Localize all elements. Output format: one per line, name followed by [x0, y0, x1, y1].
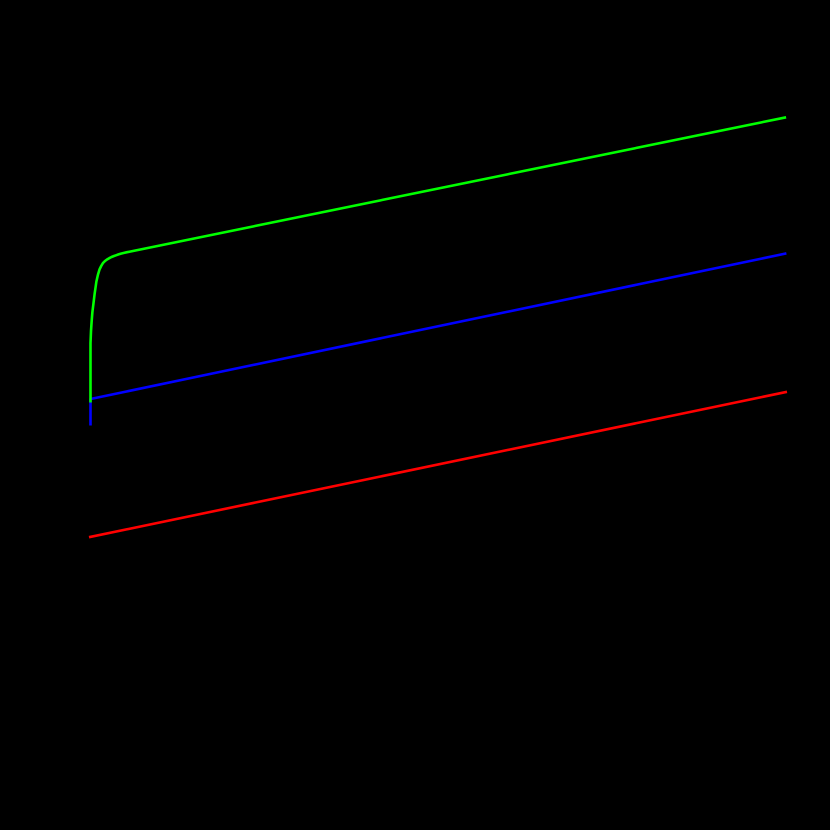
red line (linear rise) — [89, 392, 787, 537]
green curve (knee then linear rise) — [91, 117, 787, 402]
blue line (vertical tail then linear rise) — [91, 253, 787, 425]
